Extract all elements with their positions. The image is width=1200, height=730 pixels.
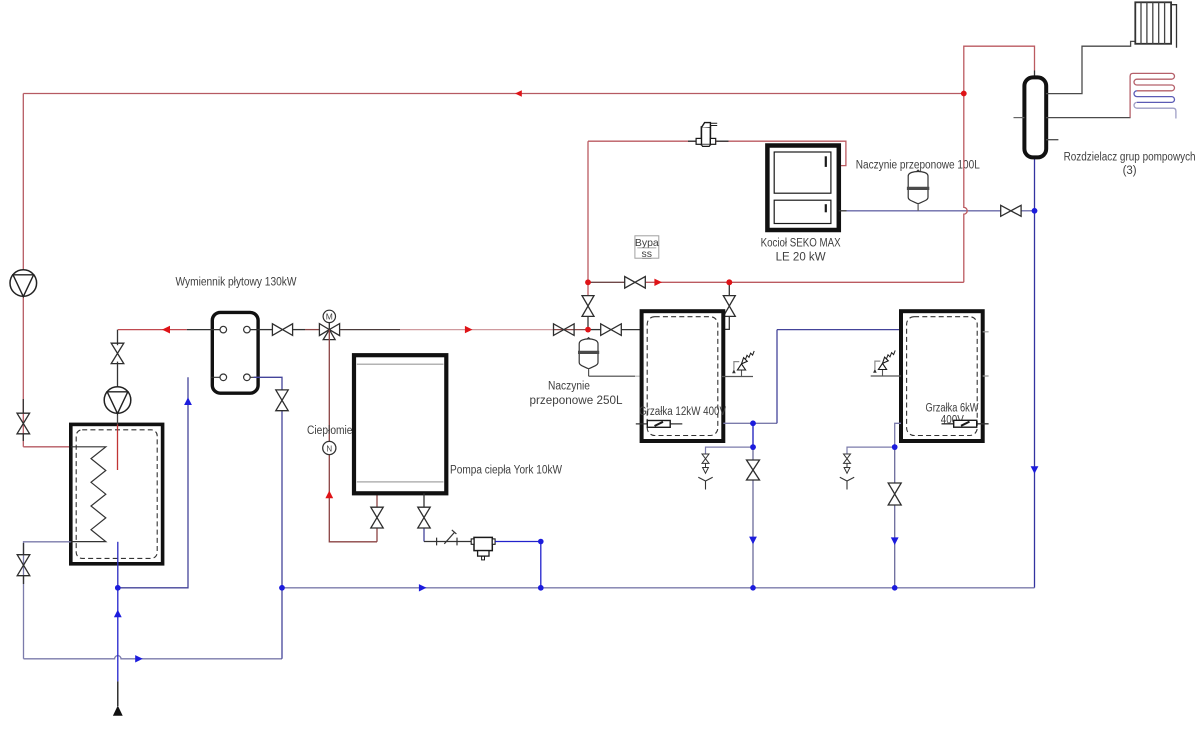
check valve on HP return (437, 530, 457, 546)
boiler SEKO (767, 146, 838, 231)
label: Naczynie przeponowe 250L (530, 381, 624, 407)
safety valve tank2 (871, 350, 901, 376)
node tank2 drain bottom (892, 585, 898, 591)
buffer tank (71, 424, 163, 563)
valve on tank1 top branch (723, 296, 735, 317)
expansion vessel 100L (907, 170, 929, 211)
heating element tank2 (942, 420, 989, 427)
valve on coil return (17, 555, 30, 576)
arrow: flow right on bottom return (135, 655, 143, 662)
svg-text:Rozdzielacz grup pompowych: Rozdzielacz grup pompowych (1064, 152, 1196, 164)
valve above pump P2 (111, 343, 124, 363)
wire: hot pipe inside buffer (117, 424, 119, 470)
wire: HX bottom-right down (254, 377, 282, 659)
svg-text:LE 20 kW: LE 20 kW (776, 251, 826, 263)
node where drain meets bottom main (279, 585, 285, 591)
label: Pompa ciepła York 10kW (450, 465, 562, 477)
wire: main bottom line y=588 (282, 587, 1035, 589)
node: buffer bottom junction (115, 585, 121, 591)
node on main bottom line (538, 585, 544, 591)
wire: hot header to HX (red part) (118, 329, 187, 331)
svg-text:M: M (326, 312, 333, 322)
label: Naczynie przeponowe 100L (856, 159, 981, 171)
heating element tank1 (636, 421, 683, 428)
node: boiler return riser junction (1032, 208, 1038, 214)
label: Ciepłomie (307, 425, 353, 437)
drain spout tank1 (698, 447, 753, 489)
label: Bypass box (635, 236, 659, 260)
wire: black into HX top-left (187, 329, 213, 331)
wire: hot into buffer coil (23, 446, 71, 448)
svg-text:Ciepłomie: Ciepłomie (307, 425, 353, 437)
plate heat exchanger (211, 312, 260, 393)
wire: hot right riser x=964 (964, 46, 1035, 282)
floor heating coil blue (1134, 91, 1176, 119)
wire: branch from bypass down to tank1 (723, 282, 729, 329)
wire: buffer cold out bottom (117, 542, 119, 588)
arrow: down tank1 drain (749, 537, 757, 545)
valve under HP left port (371, 507, 383, 528)
distributor (pump groups manifold) (1024, 77, 1046, 157)
wire: buffer coil return to left (24, 542, 71, 659)
wire: left hot riser x=23 (22, 94, 24, 447)
svg-text:Grzałka 6kW: Grzałka 6kW (926, 402, 979, 414)
valve on bypass (625, 277, 646, 289)
arrow: up to HX (184, 397, 192, 405)
svg-text:Naczynie przeponowe 100L: Naczynie przeponowe 100L (856, 159, 981, 171)
node: tank1 drain branch junction (750, 444, 756, 450)
arrow: right on bypass (654, 279, 662, 286)
buffer coil zigzag (71, 447, 106, 542)
arrow: flow left on top line (515, 90, 522, 96)
wire: floor heating circuit feed (1046, 117, 1131, 119)
node: tank2 drain branch junction (892, 444, 898, 450)
wire: boiler top line y=141 (588, 141, 846, 165)
wire: main header into tank1 (554, 329, 642, 331)
wire: tank2 bottom port (895, 423, 901, 588)
svg-text:Pompa ciepła York 10kW: Pompa ciepła York 10kW (450, 465, 562, 477)
tank Grzałka 6kW (901, 311, 983, 441)
valve left of node2 (554, 324, 575, 336)
svg-text:Wymiennik płytowy 130kW: Wymiennik płytowy 130kW (176, 277, 297, 289)
svg-text:(3): (3) (1123, 165, 1137, 177)
arrow: down on cold riser (1031, 466, 1039, 474)
valve under HP right port (418, 507, 430, 528)
arrow: up on buffer drain (114, 610, 122, 618)
heat pump York box (354, 355, 446, 493)
wire: boiler return to riser (839, 210, 1035, 212)
arrow: left toward buffer branch (162, 326, 170, 334)
node tank1 drain top (750, 421, 756, 427)
node on buffer bottom (115, 585, 121, 591)
node: tank1 drain top junction (750, 421, 756, 427)
radiator (1135, 2, 1176, 47)
label: Grzałka 6kW / 400V (926, 402, 979, 426)
arrow: right on heat pump supply (465, 326, 473, 333)
node: separator drop junction (538, 585, 544, 591)
wire: separator to node (495, 542, 541, 588)
heat meter (323, 441, 336, 454)
safety valve tank1 (722, 351, 754, 377)
wire: bottom return y=659 (24, 656, 283, 659)
label: Wymiennik płytowy 130kW (176, 277, 297, 289)
node bypass at tank branch (726, 279, 732, 285)
valve right of HX (272, 324, 292, 336)
wire: 3-way to heat pump supply (340, 329, 554, 331)
wire: tank1 drain vertical (752, 423, 754, 588)
drain spout tank2 (840, 447, 895, 489)
wire: bypass line y=282 (588, 281, 964, 283)
svg-text:Naczynie: Naczynie (548, 381, 590, 393)
wire: HX top-right to valve (258, 329, 272, 331)
svg-text:przeponowe 250L: przeponowe 250L (530, 395, 624, 407)
node bypass left (585, 279, 591, 285)
wire: radiator circuit (1046, 41, 1135, 93)
label: Rozdzielacz grup pompowych (3) (1064, 152, 1196, 177)
label: Kocioł SEKO MAX / LE 20 kW (761, 237, 841, 263)
wire: tank1 bottom port to inter-tank drop (723, 330, 901, 424)
valve on boiler return (1001, 205, 1021, 216)
air vent on boiler top line (696, 123, 717, 147)
node at separator line (538, 539, 544, 545)
node tank2 drain branch (892, 444, 898, 450)
wire: buffer to HX cold (118, 377, 188, 588)
label: Grzałka 12kW 400V (639, 406, 726, 418)
node2 on main header (585, 327, 591, 333)
node: bypass branch junction (726, 279, 732, 285)
arrow: right on bottom main (419, 584, 427, 591)
node tank1 drain bottom (750, 585, 756, 591)
3-way mixing valve with motor M (319, 310, 339, 339)
wire: heat meter drop (dark red loop) (329, 330, 377, 542)
floor heating coil red (1130, 73, 1174, 117)
valve on left riser (17, 413, 30, 434)
svg-text:N: N (326, 444, 332, 453)
big valve tank2 drain (888, 483, 901, 505)
svg-text:Grzałka 12kW 400V: Grzałka 12kW 400V (639, 406, 726, 418)
valve right of node2 (601, 324, 622, 336)
wire: HP right port down (424, 493, 472, 541)
dirt separator device (471, 537, 495, 559)
wire: main hot supply top line (23, 93, 964, 95)
valve on riser x=588 (582, 296, 594, 317)
arrow: down tank2 drain (891, 537, 899, 545)
pump P2 above buffer (104, 330, 131, 425)
distributor port3 stub (1046, 139, 1058, 141)
pump P1 left riser (10, 270, 37, 297)
valve under HX right (276, 390, 288, 411)
wire: valve to 3-way (293, 329, 320, 331)
expansion vessel 250L (578, 338, 642, 377)
node at riser top (1032, 208, 1038, 214)
node top line joins riser (961, 91, 967, 97)
svg-text:Kocioł SEKO MAX: Kocioł SEKO MAX (761, 237, 841, 249)
wire: cold riser x=1034 (1034, 157, 1036, 587)
node tank1 drain branch (750, 444, 756, 450)
right stubs tank2 (983, 332, 989, 376)
big valve tank1 drain (747, 460, 760, 480)
node: drain junction on bottom main (279, 585, 285, 591)
wire: bypass riser x=588 (587, 141, 589, 329)
tank Grzałka 12kW (642, 311, 724, 441)
wire: buffer drain down with end marker (113, 588, 123, 716)
distributor left stub (1014, 117, 1025, 119)
arrow: up on meter loop (325, 491, 333, 499)
